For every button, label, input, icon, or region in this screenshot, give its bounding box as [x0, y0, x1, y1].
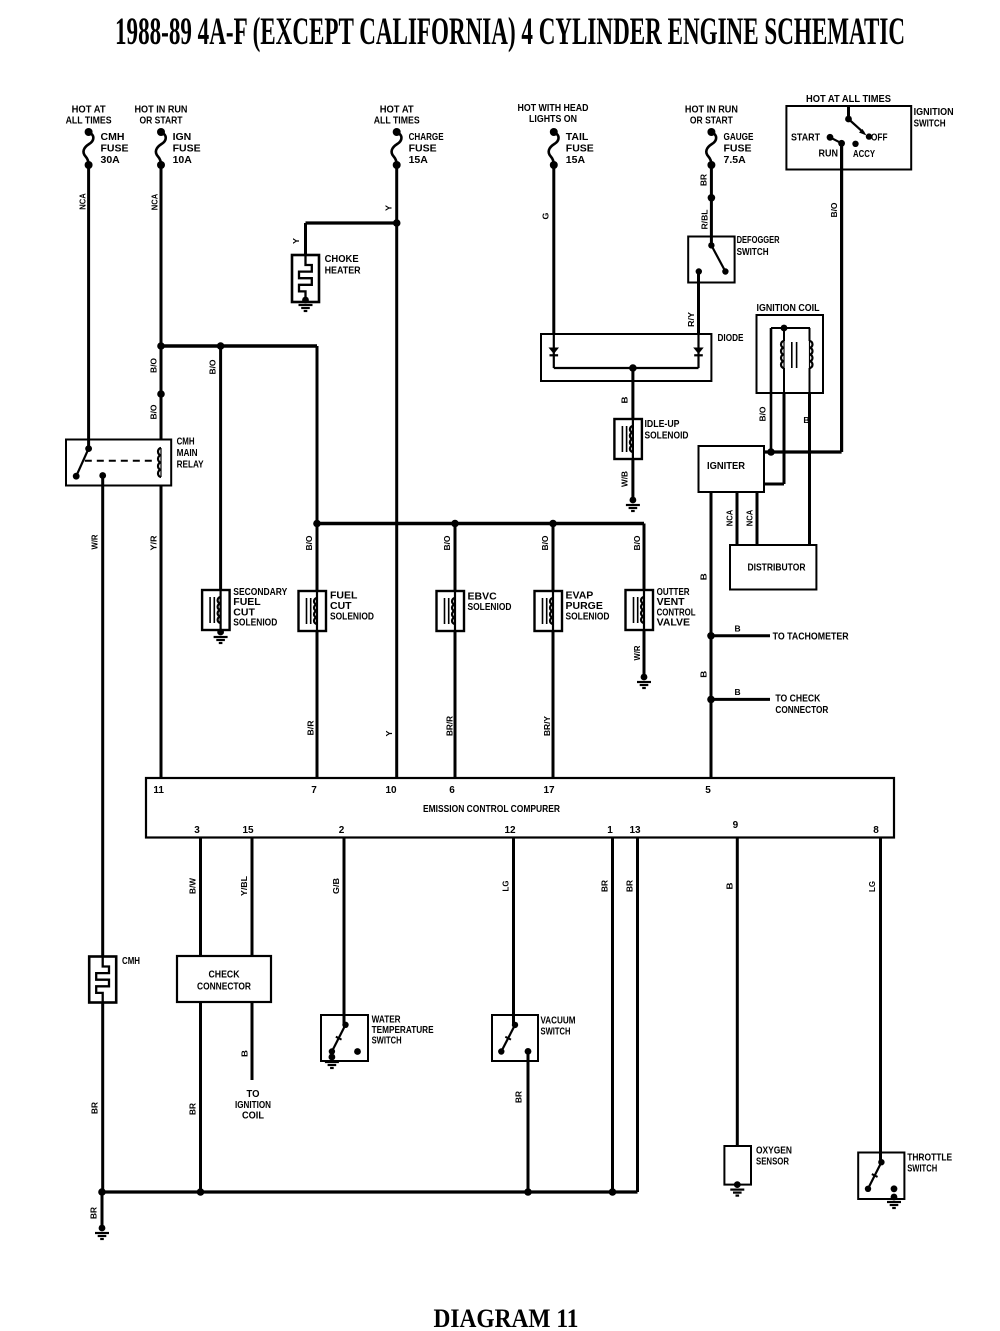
svg-text:BR: BR: [89, 1207, 99, 1219]
CMH circuit breaker: [89, 957, 116, 1003]
wire B/O from ignition switch RUN: [840, 143, 843, 452]
ground below throttle switch: [887, 1194, 901, 1208]
diode internal horizontal wire: [554, 364, 699, 372]
label B/O: [540, 535, 550, 550]
label BR/Y: [542, 716, 552, 736]
label IGNITION COIL: [757, 302, 820, 314]
svg-text:TAIL: TAIL: [566, 131, 589, 143]
fuse TAIL 15A: [549, 128, 559, 169]
label SECONDARY FUEL CUT SOLENIOD: [233, 586, 287, 629]
svg-text:9: 9: [733, 820, 739, 831]
svg-text:LG: LG: [867, 881, 877, 892]
power source label HOT AT ALL TIMES (ignition switch): [806, 93, 891, 105]
defogger switch box: [688, 237, 734, 283]
label VACUUM SWITCH: [541, 1015, 576, 1038]
svg-text:SWITCH: SWITCH: [737, 246, 769, 258]
label BR: [625, 880, 635, 892]
svg-text:DEFOGGER: DEFOGGER: [737, 234, 780, 246]
label DISTRIBUTOR: [748, 562, 806, 574]
pin 17: [543, 785, 555, 796]
label START: [791, 132, 820, 144]
wire Y horizontal to choke heater: [306, 219, 401, 227]
svg-text:SOLENIOD: SOLENIOD: [468, 601, 512, 613]
ground below idle-up solenoid: [626, 497, 640, 511]
label Y/BL: [239, 876, 249, 896]
wire B/R fuel cut solenoid to ECU pin 7: [316, 631, 319, 778]
secondary fuel cut solenoid: [202, 590, 230, 630]
caption DIAGRAM 11: [434, 1304, 579, 1331]
svg-text:GAUGE: GAUGE: [724, 131, 754, 143]
svg-text:BR: BR: [514, 1091, 524, 1103]
svg-text:OR START: OR START: [140, 115, 183, 127]
label RUN: [819, 148, 839, 160]
label B/W: [188, 877, 198, 894]
svg-text:1988-89 4A-F (EXCEPT CALIFORNI: 1988-89 4A-F (EXCEPT CALIFORNIA) 4 CYLIN…: [115, 10, 905, 53]
fuse GAUGE 7.5A: [706, 128, 716, 169]
svg-text:NCA: NCA: [745, 510, 755, 527]
label CMH: [122, 955, 140, 967]
label B: [240, 1050, 250, 1057]
power source label HOT AT ALL TIMES (CMH fuse): [66, 104, 112, 127]
defogger switch contacts: [696, 242, 729, 274]
wire G/B ECU pin 2 to water temperature switch: [343, 838, 346, 1026]
wire BR/Y EVAP solenoid to ECU pin 17: [552, 631, 555, 778]
svg-text:CMH: CMH: [122, 955, 140, 967]
label NCA: [150, 194, 160, 211]
label B/O: [829, 202, 839, 217]
svg-text:VALVE: VALVE: [657, 617, 690, 629]
svg-text:Y/BL: Y/BL: [239, 876, 249, 896]
label DIODE: [718, 332, 744, 344]
pin 7: [311, 785, 317, 796]
label B/O: [632, 535, 642, 550]
label OFF: [871, 132, 888, 144]
ignition switch START-RUN arm: [827, 134, 859, 147]
wire B from igniter to ECU pin 5: [710, 492, 713, 778]
wire B/O ignition coil left leg: [770, 328, 773, 452]
wire B ignition coil secondary to distributor: [808, 393, 811, 545]
label ACCY: [853, 148, 875, 160]
power source label HOT IN RUN OR START (IGN fuse): [135, 104, 188, 127]
svg-text:10: 10: [385, 785, 397, 796]
svg-text:B: B: [240, 1050, 250, 1057]
svg-text:HOT AT ALL TIMES: HOT AT ALL TIMES: [806, 93, 891, 105]
label G/B: [331, 878, 341, 894]
wire B check connector stub: [251, 1002, 254, 1080]
svg-text:CMH: CMH: [177, 436, 195, 448]
choke heater: [292, 255, 319, 302]
svg-text:COIL: COIL: [242, 1110, 265, 1122]
pin 3: [194, 825, 200, 836]
svg-text:B/O: B/O: [632, 535, 642, 550]
wire NCA from IGN fuse to junction: [160, 165, 163, 346]
label CHECK CONNECTOR: [197, 969, 251, 993]
CMH main relay switch: [73, 445, 106, 479]
ground below water temperature switch: [325, 1054, 339, 1068]
ground bus wire: [98, 1188, 637, 1196]
label B/R: [306, 721, 316, 736]
vacuum switch contacts: [498, 1022, 531, 1055]
pin 8: [873, 825, 879, 836]
svg-text:LIGHTS ON: LIGHTS ON: [529, 113, 577, 125]
label B: [699, 573, 709, 580]
ignition switch box: [786, 106, 911, 170]
svg-text:IGNITER: IGNITER: [707, 460, 745, 472]
ignition coil core: [792, 342, 797, 368]
idle-up solenoid: [614, 419, 642, 459]
splice dot on gauge fuse wire: [708, 194, 716, 202]
diode D2: [693, 348, 704, 356]
svg-text:12: 12: [504, 825, 516, 836]
svg-text:FUSE: FUSE: [566, 143, 594, 155]
svg-text:11: 11: [153, 785, 164, 796]
wire B/O junction to relay coil: [157, 346, 165, 440]
svg-text:B: B: [620, 397, 630, 404]
pin 5: [705, 785, 711, 796]
wire BR check connector to ground bus: [199, 1002, 202, 1192]
label TO CHECK CONNECTOR: [775, 693, 828, 717]
wire G from tail fuse to diode: [552, 165, 555, 334]
pin 12: [504, 825, 516, 836]
wire LG ECU pin 12 to vacuum switch: [512, 838, 515, 1026]
svg-text:START: START: [791, 132, 820, 144]
label CMH MAIN RELAY: [177, 436, 204, 471]
label B/O: [442, 535, 452, 550]
wire R/Y from defogger to diode: [697, 272, 700, 335]
label B: [735, 624, 741, 634]
label THROTTLE SWITCH: [907, 1152, 952, 1175]
svg-text:8: 8: [873, 825, 879, 836]
svg-text:B/O: B/O: [149, 358, 159, 373]
label G: [541, 212, 551, 219]
svg-text:BR/R: BR/R: [445, 716, 455, 736]
label B/O: [758, 406, 768, 421]
ignition coil primary: [771, 325, 810, 393]
pin 11: [153, 785, 164, 796]
diode internal right wire: [697, 334, 699, 368]
svg-text:W/R: W/R: [90, 535, 100, 550]
vacuum switch box: [492, 1015, 538, 1061]
wire W/R relay to CMH breaker: [101, 476, 104, 958]
svg-text:ALL TIMES: ALL TIMES: [374, 115, 420, 127]
label W/B: [620, 471, 630, 487]
svg-text:IGNITION COIL: IGNITION COIL: [757, 302, 820, 314]
svg-text:30A: 30A: [101, 154, 121, 166]
label B: [620, 397, 630, 404]
pin 9: [733, 820, 739, 831]
svg-text:17: 17: [543, 785, 555, 796]
wire B/O down to solenoid bus: [316, 346, 319, 524]
label CHARGE FUSE 15A: [409, 131, 444, 166]
svg-text:TO TACHOMETER: TO TACHOMETER: [773, 631, 849, 643]
label IGNITION SWITCH: [914, 106, 954, 130]
svg-text:15: 15: [242, 825, 254, 836]
wire B from diode to idle-up solenoid: [631, 368, 634, 419]
label BR: [699, 174, 709, 186]
ground at bus left end: [95, 1225, 109, 1239]
title text: [115, 10, 905, 53]
svg-text:NCA: NCA: [725, 510, 735, 527]
svg-text:SOLENIOD: SOLENIOD: [233, 617, 277, 629]
pin 13: [629, 825, 641, 836]
label WATER TEMPERATURE SWITCH: [372, 1014, 434, 1047]
wire NCA from CMH fuse to CMH main relay: [87, 165, 90, 449]
wire BR from gauge fuse: [710, 165, 713, 198]
oxygen sensor box: [724, 1146, 751, 1185]
diode internal left wire: [553, 334, 555, 368]
svg-text:B/O: B/O: [442, 535, 452, 550]
svg-text:CMH: CMH: [101, 131, 125, 143]
svg-text:FUSE: FUSE: [173, 143, 201, 155]
throttle switch box: [858, 1153, 904, 1200]
svg-text:7: 7: [311, 785, 317, 796]
svg-text:IDLE-UP: IDLE-UP: [645, 418, 680, 430]
label IGN FUSE 10A: [173, 131, 201, 166]
svg-text:BR: BR: [699, 174, 709, 186]
svg-text:B: B: [699, 573, 709, 580]
svg-text:SOLENOID: SOLENOID: [645, 430, 689, 442]
svg-text:Y/R: Y/R: [149, 536, 159, 551]
svg-text:FUSE: FUSE: [409, 143, 437, 155]
wire B to check connector: [711, 698, 770, 701]
ground below outter vent control valve: [637, 674, 651, 688]
svg-text:EMISSION CONTROL COMPURER: EMISSION CONTROL COMPURER: [423, 803, 560, 815]
svg-text:6: 6: [449, 785, 455, 796]
svg-text:B: B: [735, 624, 741, 634]
label BR: [600, 880, 610, 892]
wire from ignition coil primary to igniter: [764, 393, 784, 484]
pin 15: [242, 825, 254, 836]
svg-text:CONNECTOR: CONNECTOR: [775, 704, 828, 716]
label B: [725, 883, 735, 890]
svg-text:B: B: [699, 671, 709, 678]
svg-text:NCA: NCA: [78, 193, 88, 210]
svg-text:B/O: B/O: [758, 406, 768, 421]
wire B/O solenoid bus horizontal: [313, 520, 644, 528]
fuse IGN 10A: [156, 128, 166, 169]
svg-text:2: 2: [339, 825, 345, 836]
label GAUGE FUSE 7.5A: [724, 131, 754, 166]
label BR: [188, 1103, 198, 1115]
wire B to tachometer: [711, 634, 770, 637]
wire B/O bus to fuel cut solenoid: [316, 524, 319, 592]
svg-text:B/W: B/W: [188, 877, 198, 894]
label B/O: [208, 359, 218, 374]
wire B ECU pin 9 to oxygen sensor: [736, 838, 739, 1147]
label LG: [501, 880, 511, 891]
fuse CMH 30A: [83, 128, 93, 169]
wire BR vacuum switch to ground bus: [527, 1051, 530, 1192]
svg-text:B/O: B/O: [208, 359, 218, 374]
svg-text:RUN: RUN: [819, 148, 839, 160]
label OXYGEN SENSOR: [756, 1145, 792, 1168]
outter vent control valve: [626, 590, 654, 630]
svg-text:SWITCH: SWITCH: [541, 1026, 571, 1038]
svg-text:SOLENIOD: SOLENIOD: [566, 611, 610, 623]
wire B/O to secondary fuel cut solenoid: [219, 346, 222, 590]
label R/Y: [686, 312, 696, 327]
wire B/W ECU pin 3 to check connector: [199, 838, 202, 957]
svg-text:BR: BR: [90, 1102, 100, 1114]
emission control computer box: [146, 778, 894, 838]
svg-text:TO CHECK: TO CHECK: [775, 693, 820, 705]
wire Y from charge fuse: [395, 165, 398, 223]
label DEFOGGER SWITCH: [737, 234, 780, 258]
wire BR bus to ground: [101, 1192, 104, 1228]
wire W/R outter vent valve to ground: [643, 630, 646, 677]
igniter box: [699, 446, 765, 492]
ground below secondary fuel cut solenoid: [214, 629, 228, 643]
label OUTTER VENT CONTROL VALVE: [657, 586, 696, 629]
svg-text:BR: BR: [188, 1103, 198, 1115]
svg-text:SOLENIOD: SOLENIOD: [330, 611, 374, 623]
ground below choke heater: [299, 297, 313, 311]
power source label HOT WITH HEAD LIGHTS ON: [518, 102, 589, 125]
svg-text:CHOKE: CHOKE: [325, 253, 359, 265]
wire LG ECU pin 8 to throttle switch: [879, 838, 882, 1163]
svg-text:FUSE: FUSE: [101, 143, 129, 155]
svg-text:ALL TIMES: ALL TIMES: [66, 115, 112, 127]
label NCA: [725, 510, 735, 527]
EBVC solenoid: [437, 591, 465, 631]
svg-text:IGN: IGN: [173, 131, 192, 143]
label BR/R: [445, 716, 455, 736]
svg-text:Y: Y: [384, 205, 394, 211]
label BR: [90, 1102, 100, 1114]
svg-text:W/R: W/R: [632, 646, 642, 661]
svg-text:B/O: B/O: [304, 535, 314, 550]
label CHOKE HEATER: [325, 253, 361, 277]
wire B/O bus to EVAP purge solenoid: [552, 524, 555, 592]
svg-text:B: B: [725, 883, 735, 890]
pin 10: [385, 785, 397, 796]
diode box: [541, 334, 711, 381]
ignition switch OFF arm: [845, 116, 872, 140]
wire NCA igniter to distributor 1: [736, 492, 739, 545]
svg-text:15A: 15A: [566, 154, 586, 166]
svg-text:R/Y: R/Y: [686, 312, 696, 327]
ignition coil box: [757, 315, 824, 393]
svg-text:SWITCH: SWITCH: [907, 1163, 937, 1175]
svg-text:DIODE: DIODE: [718, 332, 744, 344]
label B on wire: [803, 415, 809, 425]
distributor box: [730, 545, 816, 590]
fuel cut solenoid: [299, 591, 327, 631]
svg-text:5: 5: [705, 785, 711, 796]
svg-text:B/O: B/O: [149, 404, 159, 419]
wire Y choke heater drop: [304, 223, 307, 255]
wire BR breaker to ground bus: [101, 1003, 104, 1193]
throttle switch contacts: [865, 1159, 898, 1192]
svg-text:G: G: [541, 212, 551, 219]
label Y: [384, 730, 394, 736]
pin 1: [607, 825, 613, 836]
wire NCA igniter to distributor 2: [756, 492, 759, 545]
svg-text:G/B: G/B: [331, 878, 341, 894]
fuse CHARGE 15A: [392, 128, 402, 169]
svg-text:B/O: B/O: [829, 202, 839, 217]
label NCA: [745, 510, 755, 527]
diode D1: [549, 348, 560, 356]
power source label HOT AT ALL TIMES (charge fuse): [374, 104, 420, 127]
label IGNITER: [707, 460, 745, 472]
pin 6: [449, 785, 455, 796]
EVAP purge solenoid: [535, 591, 563, 631]
svg-text:SENSOR: SENSOR: [756, 1156, 789, 1168]
label B: [735, 687, 741, 697]
wire BR ECU pin 13 to ground bus: [636, 838, 639, 1193]
power source label HOT IN RUN OR START (gauge fuse): [685, 104, 738, 127]
svg-text:W/B: W/B: [620, 471, 630, 487]
label LG: [867, 881, 877, 892]
label EVAP PURGE SOLENIOD: [566, 590, 610, 623]
svg-text:ACCY: ACCY: [853, 148, 875, 160]
svg-text:OFF: OFF: [871, 132, 888, 144]
svg-text:DIAGRAM 11: DIAGRAM 11: [434, 1304, 579, 1331]
label W/R: [632, 646, 642, 661]
svg-text:RELAY: RELAY: [177, 459, 204, 471]
label IDLE-UP SOLENOID: [645, 418, 689, 442]
ignition coil secondary: [810, 328, 813, 393]
svg-text:BR/Y: BR/Y: [542, 716, 552, 736]
svg-text:R/BL: R/BL: [700, 210, 710, 230]
label Y: [291, 238, 301, 244]
wire B/O bus to EBVC solenoid: [454, 524, 457, 592]
wire B/O bus to outter vent control valve: [643, 524, 646, 591]
label B/O: [149, 404, 159, 419]
svg-text:BR: BR: [625, 880, 635, 892]
svg-text:BR: BR: [600, 880, 610, 892]
CMH main relay dashed link: [85, 460, 154, 462]
svg-text:SWITCH: SWITCH: [372, 1035, 402, 1047]
label Y/R: [149, 536, 159, 551]
label BR: [514, 1091, 524, 1103]
wire Y from junction to ECU pin 10: [395, 223, 398, 778]
svg-text:15A: 15A: [409, 154, 429, 166]
ignition switch wire stub: [847, 106, 850, 119]
wire Y/R relay coil to ECU pin 11: [160, 486, 163, 779]
ground below oxygen sensor: [730, 1181, 744, 1195]
svg-text:HEATER: HEATER: [325, 265, 361, 277]
svg-text:Y: Y: [291, 238, 301, 244]
junction dot check connector branch: [707, 696, 715, 704]
svg-text:10A: 10A: [173, 154, 193, 166]
svg-text:CHECK: CHECK: [209, 969, 240, 981]
svg-text:B: B: [735, 687, 741, 697]
svg-text:7.5A: 7.5A: [724, 154, 747, 166]
svg-text:1: 1: [607, 825, 613, 836]
svg-text:CONNECTOR: CONNECTOR: [197, 981, 251, 993]
svg-text:DISTRIBUTOR: DISTRIBUTOR: [748, 562, 806, 574]
wire B/O horizontal junction: [157, 342, 317, 350]
junction dot tachometer branch: [707, 632, 715, 640]
svg-text:IGNITION: IGNITION: [914, 106, 954, 118]
label R/BL: [700, 210, 710, 230]
CMH main relay box: [66, 440, 171, 486]
svg-text:B/R: B/R: [306, 721, 316, 736]
label TO IGNITION COIL: [235, 1088, 271, 1122]
svg-text:13: 13: [629, 825, 641, 836]
svg-text:OR START: OR START: [690, 115, 733, 127]
wire W/B from idle-up solenoid to ground: [631, 459, 634, 500]
label B/O: [149, 358, 159, 373]
wire BR ECU pin 1 to ground bus: [611, 838, 614, 1193]
wire R/BL to defogger switch: [710, 198, 713, 246]
water temperature switch contacts: [329, 1022, 361, 1055]
wire Y/BL ECU pin 15 to check connector: [251, 838, 254, 957]
svg-text:MAIN: MAIN: [177, 447, 198, 459]
label BR: [89, 1207, 99, 1219]
